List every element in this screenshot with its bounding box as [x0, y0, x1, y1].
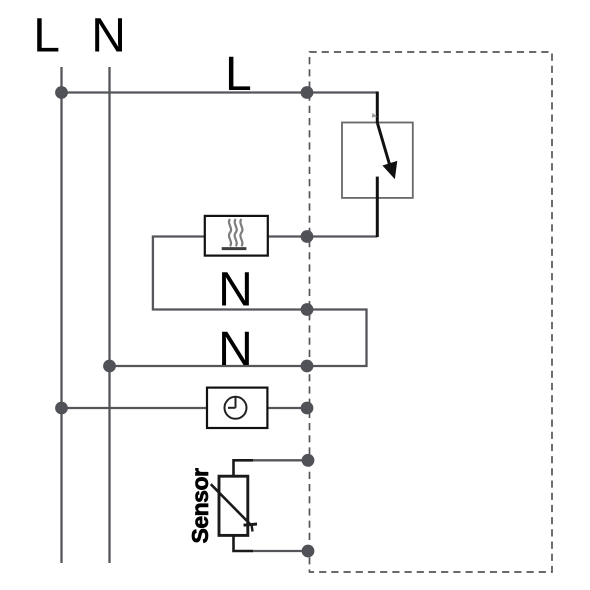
svg-text:L: L — [33, 10, 60, 63]
svg-text:N: N — [218, 263, 253, 316]
svg-text:Sensor: Sensor — [187, 468, 213, 544]
svg-text:N: N — [91, 10, 126, 63]
svg-text:N: N — [218, 323, 253, 376]
svg-text:L: L — [225, 48, 252, 101]
